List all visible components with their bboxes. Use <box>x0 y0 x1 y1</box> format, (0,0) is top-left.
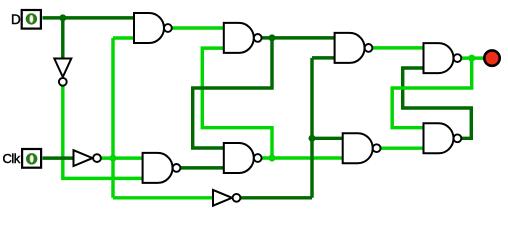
inverter U3 on Clk-bar <box>213 190 240 206</box>
wire Clk2 rail to NAND3 bottom input <box>312 56 335 59</box>
wire U3 output to Clk2 vertical rail <box>241 196 312 199</box>
junction at NAND4 output Q <box>468 55 475 62</box>
wire NAND3 output to NAND4 top input <box>372 46 423 49</box>
NAND gate G2 <box>224 23 262 53</box>
NAND gate G1 <box>134 13 172 43</box>
wire U2 output to NAND6 top input <box>101 156 143 159</box>
wire NAND2 output to NAND3 top input <box>262 36 335 39</box>
wire Clk2 vertical rail x=312 <box>310 58 313 198</box>
input pin D <box>22 10 41 29</box>
NAND gate G3 <box>335 33 373 63</box>
NAND gate G4 <box>424 43 462 73</box>
wire NAND7 output to NAND8 bottom input <box>381 146 424 149</box>
junction at NAND5 output <box>269 155 276 162</box>
wire NAND6 output to NAND5 bottom input <box>180 166 224 169</box>
junction at NAND2 output <box>269 34 276 41</box>
NAND gate G7 <box>343 133 381 163</box>
junction at Clk-bar node <box>110 155 117 162</box>
wire NAND1 output to NAND2 top input <box>172 26 224 29</box>
wire D junction down to inverter U1 <box>61 18 64 59</box>
svg-text:D: D <box>11 12 21 27</box>
wire Clk2 rail to NAND7 top input <box>312 137 343 140</box>
wire U1 output down and right to NAND6 bottom input <box>63 86 143 179</box>
wire Clk-bar rail to inverter U3 input <box>113 196 214 199</box>
wire NAND5 output to NAND7 bottom input <box>262 156 343 159</box>
NAND gate G5 <box>224 143 262 173</box>
inverter U2 on Clk <box>74 150 101 166</box>
NAND gate G6 <box>143 153 181 183</box>
wire D pin to junction and NAND1 top input <box>43 16 135 19</box>
input pin Clk <box>22 149 41 168</box>
wire Clk pin to inverter U2 <box>43 156 74 159</box>
wire NAND4 output to LED <box>461 56 484 59</box>
wire Clk-bar vertical rail x=113 <box>111 38 114 198</box>
LED output indicator <box>484 50 499 65</box>
NAND gate G8 <box>424 123 462 153</box>
inverter U1 on D (south facing) <box>54 59 71 86</box>
wire Clk-bar to NAND1 bottom input <box>113 36 134 39</box>
wire NAND5 output feedback to NAND2 bottom input <box>202 48 272 158</box>
wire Q feedback to NAND8 top input <box>392 58 472 128</box>
junction at Clk2 rail to NAND7 <box>309 135 316 142</box>
svg-text:Clk: Clk <box>3 151 21 166</box>
wire NAND8 output feedback to NAND4 bottom input <box>403 68 472 138</box>
wire NAND2 output loop to NAND5 top input <box>193 38 272 148</box>
junction on D wire <box>59 14 66 21</box>
